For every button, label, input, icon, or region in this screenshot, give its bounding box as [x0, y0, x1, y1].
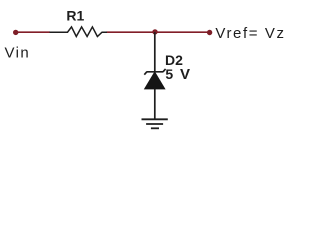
- svg-text:V: V: [180, 66, 190, 83]
- svg-text:R1: R1: [66, 7, 84, 23]
- svg-text:Vref= Vz: Vref= Vz: [215, 25, 285, 42]
- svg-text:5: 5: [165, 66, 173, 82]
- svg-text:Vin: Vin: [5, 45, 31, 62]
